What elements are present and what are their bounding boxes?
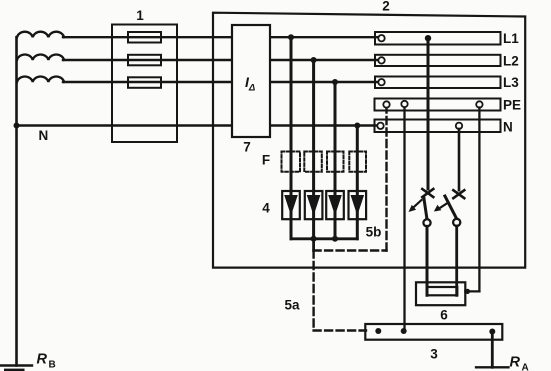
node bar 3 terminal b xyxy=(401,328,407,334)
switch S1 contact X xyxy=(422,189,433,197)
switch S2 arrow xyxy=(437,203,448,210)
terminal L2 bar xyxy=(378,57,384,63)
wire PE to unit 6 horizontal xyxy=(465,290,479,292)
switch S2 contact X xyxy=(453,190,464,198)
wire bar 3 to earth RA xyxy=(491,332,494,368)
arrester 4a arrow xyxy=(284,195,298,216)
terminal PE bar b xyxy=(401,101,407,107)
node bar 3 terminal a xyxy=(375,328,381,334)
svg-text:R: R xyxy=(510,355,521,371)
earth electrode RA symbol xyxy=(476,366,509,368)
terminal N bar b xyxy=(456,123,462,129)
arrester 4b arrow xyxy=(307,195,321,216)
transformer winding L1 xyxy=(17,32,64,37)
wire PE bar to earthing bar 3 xyxy=(403,108,405,331)
switch S1 blade xyxy=(424,198,427,220)
wire L2 phase conductor xyxy=(63,59,379,61)
wire L1 phase conductor xyxy=(63,36,379,38)
RCD U7 xyxy=(232,25,270,137)
fuse F (N) dashed xyxy=(349,152,366,172)
svg-text:3: 3 xyxy=(430,347,438,362)
busbar L1 xyxy=(375,32,501,45)
fuse F (L3) dashed xyxy=(327,152,344,172)
terminal L1 bar xyxy=(378,35,384,41)
transformer winding L2 xyxy=(17,55,64,60)
wire 5a dashed vertical xyxy=(312,251,314,331)
terminal L3 bar xyxy=(378,79,384,85)
wire drop N to arrester xyxy=(356,126,359,239)
wire PE bar to unit 6 vertical xyxy=(478,108,480,292)
svg-text:N: N xyxy=(503,120,513,135)
wire S1 to unit 6 xyxy=(426,226,429,295)
svg-text:5b: 5b xyxy=(366,225,382,240)
wire drop L3 to arrester xyxy=(334,82,337,239)
svg-text:5a: 5a xyxy=(284,298,300,313)
node collector b xyxy=(332,236,338,242)
wire S2 to unit 6 xyxy=(455,226,458,295)
arrester 4c box xyxy=(326,191,344,219)
switch S2 terminal xyxy=(453,219,460,226)
fuse F2 (L2) xyxy=(128,55,161,66)
switch S1 terminal xyxy=(423,219,430,226)
node L1 busbar tap xyxy=(425,35,431,41)
wire L1 bar to switch S1 xyxy=(427,38,430,189)
wire collector stub xyxy=(312,239,315,251)
fuse F (L1) dashed xyxy=(282,152,301,172)
wire N neutral conductor xyxy=(17,124,379,126)
svg-text:7: 7 xyxy=(243,140,251,155)
busbar L2 xyxy=(375,55,501,66)
fuse box 1 xyxy=(112,25,177,143)
node L2 tap xyxy=(311,57,317,63)
svg-text:L3: L3 xyxy=(503,75,519,90)
wire 5b dashed horizontal xyxy=(314,249,387,251)
busbar L3 xyxy=(375,77,501,89)
fuse F3 (L3) xyxy=(128,77,161,88)
svg-text:L2: L2 xyxy=(503,54,519,69)
wire arrester collector bus xyxy=(291,237,357,240)
arrester 4c arrow xyxy=(328,195,342,216)
arrester 4b box xyxy=(305,191,323,219)
wire transformer star point xyxy=(15,37,18,365)
earth electrode RB symbol xyxy=(0,364,32,366)
consumer unit 6 inner terminal xyxy=(427,287,458,295)
wire 5a dashed horizontal to bar 3 xyxy=(314,329,366,331)
node unit 6 PE link xyxy=(465,289,470,294)
svg-text:2: 2 xyxy=(382,0,390,14)
node L1 tap xyxy=(288,34,294,40)
switch S2 blade xyxy=(445,196,457,219)
node collector a xyxy=(311,236,317,242)
svg-text:A: A xyxy=(522,363,529,371)
consumer unit 6 box xyxy=(416,282,465,305)
enclosure box 2 xyxy=(213,13,525,268)
svg-text:N: N xyxy=(39,128,49,143)
arrester 4d box xyxy=(349,191,367,219)
wire L3 phase conductor xyxy=(63,81,379,83)
earthing bar 3 xyxy=(365,324,502,340)
svg-text:B: B xyxy=(49,360,56,371)
arrester 4a box xyxy=(282,191,300,219)
svg-text:4: 4 xyxy=(262,201,270,216)
wire drop L1 to arrester xyxy=(290,37,293,239)
busbar N xyxy=(375,120,501,133)
arrester 4d arrow xyxy=(351,195,365,216)
svg-text:R: R xyxy=(37,352,48,368)
terminal PE bar a xyxy=(383,101,389,107)
wire N bar to switch S2 xyxy=(458,129,461,190)
fuse F (L2) dashed xyxy=(304,152,322,172)
fuse F1 (L1) xyxy=(128,32,161,43)
node L3 tap xyxy=(332,79,338,85)
wire drop L2 to arrester xyxy=(312,60,315,239)
busbar PE xyxy=(375,99,501,111)
switch S1 arrow xyxy=(412,200,422,209)
wire 5b dashed vertical to PE bar xyxy=(385,108,387,251)
node bar 3 terminal c xyxy=(489,329,495,335)
svg-text:PE: PE xyxy=(503,98,521,113)
terminal PE bar c xyxy=(476,101,482,107)
svg-text:L1: L1 xyxy=(503,31,519,46)
node N junction xyxy=(14,123,20,129)
svg-text:F: F xyxy=(262,153,270,168)
transformer winding L3 xyxy=(17,77,64,82)
node N tap xyxy=(354,123,360,129)
svg-text:1: 1 xyxy=(136,8,144,23)
svg-text:6: 6 xyxy=(440,308,448,323)
terminal N bar a xyxy=(377,123,383,129)
